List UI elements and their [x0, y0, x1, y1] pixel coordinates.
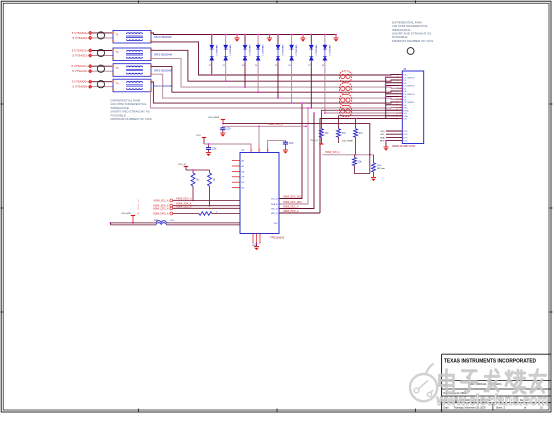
svg-text:8: 8: [397, 94, 398, 96]
svg-text:HDMI_5V0_A: HDMI_5V0_A: [325, 151, 340, 154]
svg-text:RSVD: RSVD: [404, 110, 410, 112]
svg-text:V3.3_IO: V3.3_IO: [178, 164, 186, 166]
svg-text:6: 6: [397, 88, 398, 90]
svg-text:SMDA05C-7: SMDA05C-7: [215, 45, 218, 58]
svg-text:V3.3: V3.3: [196, 135, 201, 137]
svg-text:2: 2: [397, 77, 398, 79]
svg-text:SMDA05C-7: SMDA05C-7: [229, 45, 232, 58]
svg-text:HDMI_CEC_A: HDMI_CEC_A: [153, 207, 169, 210]
svg-text:C29: C29: [226, 128, 231, 131]
svg-text:MINIMUM NUMBER OF VIAS: MINIMUM NUMBER OF VIAS: [111, 117, 152, 121]
svg-text:D1-: D1-: [404, 88, 408, 90]
svg-text:SMDA05C-7: SMDA05C-7: [314, 45, 317, 58]
svg-text:CK_SHIELD: CK_SHIELD: [404, 102, 416, 104]
svg-text:ESD: ESD: [377, 165, 382, 167]
svg-text:11: 11: [396, 102, 398, 104]
svg-text:SMDA05C-7: SMDA05C-7: [295, 45, 298, 58]
svg-text:CEC_B: CEC_B: [271, 209, 278, 211]
svg-text:HDMI (TMDS141, TPD12S016): HDMI (TMDS141, TPD12S016): [468, 383, 502, 386]
svg-text:C28: C28: [212, 147, 217, 150]
svg-text:15: 15: [396, 113, 398, 115]
svg-text:2: 2: [260, 150, 261, 152]
svg-text:HDMI_CEC_A: HDMI_CEC_A: [176, 205, 192, 208]
svg-text:5 V75A/D1-: 5 V75A/D1-: [72, 54, 88, 58]
svg-text:GND: GND: [252, 245, 257, 247]
svg-text:D2-: D2-: [404, 80, 408, 82]
svg-text:5 V75A/CK+: 5 V75A/CK+: [71, 64, 88, 68]
svg-text:HDMI_DDC_SCL: HDMI_DDC_SCL: [283, 195, 302, 198]
svg-text:SDA: SDA: [380, 136, 385, 139]
svg-text:HDMI_SCL_A: HDMI_SCL_A: [153, 199, 168, 202]
svg-text:SMDA05C-7: SMDA05C-7: [281, 45, 284, 58]
svg-text:HPD_B: HPD_B: [271, 213, 278, 215]
svg-text:3: 3: [268, 150, 269, 152]
svg-text:HDMI_CEC_A: HDMI_CEC_A: [283, 205, 299, 208]
svg-text:HDMI_5V0_A: HDMI_5V0_A: [268, 123, 283, 126]
svg-text:MINIMUM NUMBER OF VIAS: MINIMUM NUMBER OF VIAS: [392, 39, 433, 43]
svg-text:5 V75A/D1+: 5 V75A/D1+: [72, 49, 89, 53]
svg-text:HDMI_HPD_A: HDMI_HPD_A: [153, 213, 169, 216]
svg-text:5 V75A/D2-: 5 V75A/D2-: [72, 36, 88, 40]
svg-text:www.elecfans.com: www.elecfans.com: [436, 393, 549, 409]
svg-text:NP 0om: NP 0om: [377, 168, 385, 170]
svg-text:C25: C25: [289, 142, 294, 145]
svg-text:D0_SHIELD: D0_SHIELD: [404, 94, 415, 96]
svg-text:CK-: CK-: [404, 105, 408, 107]
svg-text:HDMI-19-SMT-CON: HDMI-19-SMT-CON: [392, 144, 415, 148]
svg-text:V3.3_IO: V3.3_IO: [310, 140, 318, 142]
svg-text:7: 7: [397, 91, 398, 93]
svg-text:SDA_B: SDA_B: [271, 203, 278, 206]
svg-text:12: 12: [396, 105, 398, 107]
svg-text:SMDA05C-7: SMDA05C-7: [328, 45, 331, 58]
svg-text:HPD: HPD: [380, 141, 385, 143]
svg-text:SMDA05C-7: SMDA05C-7: [248, 45, 251, 58]
svg-text:SMDA05C-7: SMDA05C-7: [261, 45, 264, 58]
svg-text:SCL_B: SCL_B: [271, 199, 278, 201]
svg-text:S4F2-060204M: S4F2-060204M: [154, 53, 172, 57]
svg-text:TPD12S016: TPD12S016: [270, 236, 285, 240]
svg-text:SDA: SDA: [404, 115, 409, 118]
svg-text:5 V75A/CK-: 5 V75A/CK-: [72, 69, 88, 73]
svg-text:5: 5: [397, 85, 398, 87]
svg-text:10: 10: [396, 99, 398, 101]
svg-text:4: 4: [397, 83, 398, 85]
svg-text:9: 9: [397, 96, 398, 98]
svg-text:D2_SHIELD: D2_SHIELD: [404, 77, 415, 79]
svg-text:5V0_HPD: 5V0_HPD: [121, 213, 131, 215]
svg-text:5 V75A/D0-: 5 V75A/D0-: [72, 85, 88, 89]
svg-text:HDMI_DDC_SDA: HDMI_DDC_SDA: [283, 201, 302, 204]
svg-text:TEXAS INSTRUMENTS INCORPORATED: TEXAS INSTRUMENTS INCORPORATED: [444, 358, 536, 364]
svg-text:5 V75A/D2+: 5 V75A/D2+: [72, 31, 89, 35]
svg-text:CEC: CEC: [404, 108, 409, 110]
svg-text:HDMI_HPD_A: HDMI_HPD_A: [283, 210, 299, 213]
svg-text:D0-: D0-: [404, 97, 408, 99]
svg-text:S4C3-060204Z: S4C3-060204Z: [154, 35, 172, 39]
svg-text:13: 13: [396, 107, 398, 109]
svg-text:17: 17: [396, 118, 398, 120]
svg-text:1: 1: [397, 74, 398, 76]
svg-text:S4F2-060204M: S4F2-060204M: [154, 68, 172, 72]
svg-text:HDMI_DDC_A: HDMI_DDC_A: [176, 197, 192, 200]
svg-text:5V0_HDMI: 5V0_HDMI: [342, 141, 353, 143]
svg-text:5V0_HDMI: 5V0_HDMI: [208, 117, 219, 119]
svg-text:D1_SHIELD: D1_SHIELD: [404, 86, 415, 88]
svg-text:5 V75A/D0+: 5 V75A/D0+: [72, 80, 89, 84]
svg-text:1: 1: [252, 150, 253, 152]
svg-text:3: 3: [397, 80, 398, 82]
